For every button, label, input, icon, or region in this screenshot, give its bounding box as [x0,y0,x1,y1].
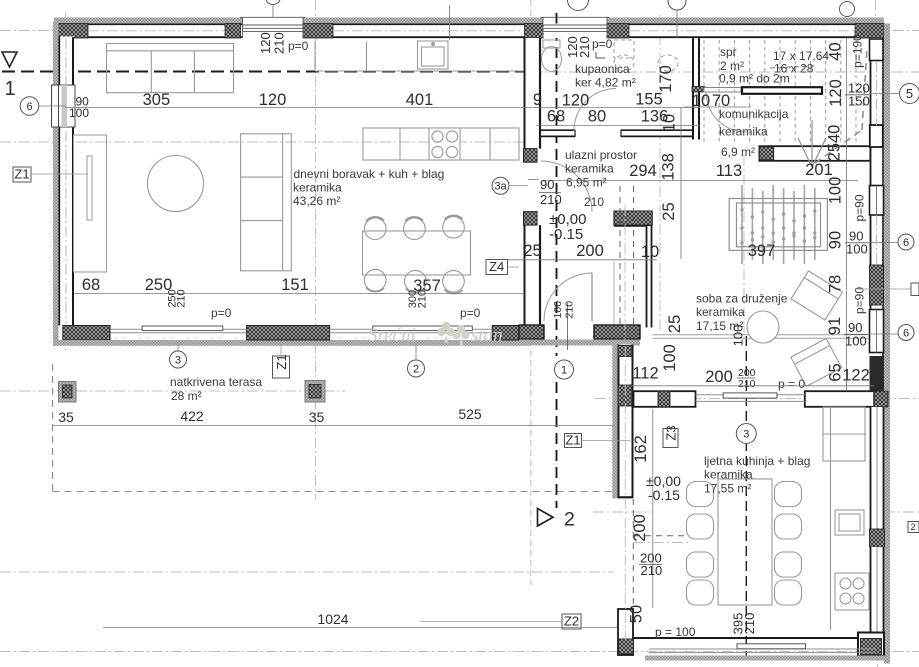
svg-text:3a: 3a [494,181,507,193]
svg-text:210: 210 [417,290,429,308]
svg-text:p=0: p=0 [592,37,613,51]
svg-text:43,26 m²: 43,26 m² [293,194,340,208]
svg-text:210: 210 [540,192,562,207]
overhead (dashed) wall projection lines [620,186,688,645]
svg-text:210: 210 [584,195,604,209]
section marker 2 bottom [538,509,554,527]
svg-text:Z4: Z4 [489,259,504,274]
svg-text:25: 25 [666,315,684,333]
circle 3 below wall [177,345,179,351]
svg-text:keramika: keramika [565,162,614,176]
svg-text:Z1: Z1 [274,354,289,369]
svg-text:keramika: keramika [293,181,342,195]
svg-text:422: 422 [180,408,204,424]
svg-text:Z1: Z1 [565,433,580,448]
family room bottom glass line [653,335,870,339]
stove [429,128,460,160]
Z3 rotated box [663,429,678,448]
svg-text:40: 40 [827,42,845,60]
sliding door S1 rails [110,329,246,333]
svg-text:201: 201 [805,161,833,179]
stairs direction arrow [798,120,826,167]
svg-text:68: 68 [547,108,565,126]
top wall piers (cross hatch) [54,24,884,39]
stairs left wall (x 692-700) [692,38,700,140]
svg-text:ker 4,82 m²: ker 4,82 m² [575,76,636,90]
right wall window 91 (y 310-345) [870,310,884,353]
sofa return (left section) [241,134,292,271]
Z1 rotated box (terrace) [273,356,290,378]
svg-text:soba za druženje: soba za druženje [696,292,788,306]
bathroom shower oval (dashed) [658,55,678,71]
svg-text:p=0: p=0 [460,306,481,320]
summer kitchen chairs right [775,482,802,606]
svg-text:525: 525 [458,406,482,422]
dining table [363,231,471,275]
summer kitchen sink [835,510,864,535]
dining chairs top row [364,215,464,239]
svg-text:100: 100 [69,106,89,120]
svg-text:1: 1 [5,78,16,100]
grid line x=531 dashed grey [530,0,532,585]
svg-text:p = 0: p = 0 [778,377,805,391]
svg-text:210: 210 [577,36,592,58]
top leader circles [266,0,281,5]
Z1 box left [13,167,31,182]
top exterior wall insulation strip [54,18,884,24]
svg-text:68: 68 [82,276,100,294]
kitchen sink [418,41,449,69]
summer kitchen chairs left [687,482,714,606]
bottom living-room wall piers [247,326,525,341]
svg-text:komunikacija: komunikacija [719,107,789,121]
terrace column 2 [305,381,325,403]
svg-text:120: 120 [259,91,287,109]
circle 2 below wall [415,345,417,360]
svg-text:100: 100 [661,344,679,372]
svg-text:6,95 m²: 6,95 m² [566,176,607,190]
svg-text:25: 25 [523,242,541,260]
svg-text:200: 200 [576,242,604,260]
window W1 in top wall (120/210) [240,17,305,38]
svg-text:120: 120 [827,79,845,107]
svg-text:28 m²: 28 m² [171,389,202,403]
svg-text:ulazni prostor: ulazni prostor [565,148,637,162]
svg-text:210: 210 [641,563,663,578]
svg-text:122: 122 [842,367,870,385]
section line 2 (vertical, summer kitchen axis) [745,336,747,660]
svg-text:150: 150 [848,94,870,109]
svg-text:397: 397 [748,242,776,260]
family room armchair 2 (tilted) [791,338,842,386]
door D70 leaf (open, horizontal) [704,88,741,93]
svg-text:6,9 m²: 6,9 m² [721,145,755,159]
summer kitchen right wall band w/ window (y 407-529) [870,407,885,529]
svg-text:90: 90 [540,177,554,192]
section line 1 (horizontal, left) [2,70,524,72]
bathroom sink (dashed) [614,40,634,71]
stairs dashed up-line [815,48,867,163]
Z4 box [486,260,508,275]
summer kitchen counter edge [830,407,832,630]
wall between stairs and family room (y 146-161) [759,146,884,161]
left circle 6 (window) [20,97,39,116]
living room right wall (x 523.5-541) [524,38,542,329]
svg-text:210: 210 [742,613,757,635]
svg-text:stan: stan [471,325,503,346]
svg-text:112: 112 [632,365,658,383]
dim line row top (305/120/401) [65,107,531,109]
svg-text:100: 100 [552,301,564,319]
hall stub wall with niche (hatch) y 211-225 [614,211,652,226]
svg-text:2: 2 [910,522,915,532]
svg-text:keramika: keramika [704,468,753,482]
west wall of summer kitchen (x 617.5-633.5, y 344.5-498.5) [612,345,633,499]
svg-text:151: 151 [281,276,309,294]
svg-text:294: 294 [629,162,657,180]
summer kitchen stove [835,573,869,610]
svg-text:1: 1 [561,365,567,377]
right wall window p=90 (y 202-225) [870,186,884,216]
svg-text:3: 3 [175,355,181,367]
svg-text:210: 210 [175,289,187,307]
svg-text:100: 100 [827,177,845,205]
svg-text:Srećni: Srećni [368,325,416,346]
svg-text:-0.15: -0.15 [648,487,680,503]
svg-text:100: 100 [731,325,746,347]
door D80 swing (bathroom) [574,89,616,131]
svg-text:90: 90 [827,231,845,249]
svg-text:-0.15: -0.15 [549,226,583,243]
dining chairs bottom row [364,269,464,293]
svg-text:35: 35 [309,409,325,425]
svg-text:50: 50 [628,605,646,623]
main door D100 swing [544,273,592,321]
family room round chair [747,311,779,343]
svg-text:dnevni boravak + kuh + blag: dnevni boravak + kuh + blag [294,167,445,181]
bathroom toilet [542,40,562,72]
svg-text:keramika: keramika [719,125,768,139]
svg-text:35: 35 [58,409,74,425]
bottom-left corner pier [63,326,110,341]
dim line 162 (x 653.5) [0,0,653,608]
svg-text:25: 25 [660,202,678,220]
right wall: band from top corner down [870,38,885,356]
main door D100 leaf [591,273,593,321]
svg-text:2: 2 [564,509,575,531]
door D70 stub hatch [692,87,705,93]
svg-text:ljetna kuhinja + blag: ljetna kuhinja + blag [704,454,810,468]
svg-text:138: 138 [660,153,678,181]
wall axis dash-dot x625 [624,205,626,497]
svg-text:17,55 m²: 17,55 m² [704,482,751,496]
right wall window p=190 (y 39-60.5) [870,39,884,61]
svg-text:9: 9 [533,91,542,109]
summer kitchen fridge [823,407,865,461]
bathroom bottom wall [541,130,700,138]
right wall niche box (y 125-147) [870,125,883,147]
svg-text:401: 401 [406,91,434,109]
kitchen counter top [315,42,524,72]
svg-text:210: 210 [564,301,576,319]
svg-text:120: 120 [562,92,590,110]
summer kitchen top wall [634,391,889,407]
terrace column 1 [59,382,77,403]
sliding door S1 panel [142,326,223,331]
svg-text:p=190: p=190 [851,34,865,68]
svg-text:113: 113 [716,162,742,180]
svg-text:6: 6 [903,327,909,339]
svg-text:210: 210 [272,32,287,54]
svg-text:80: 80 [588,108,606,126]
svg-text:91: 91 [826,317,844,335]
Z1 box (hall bottom) [565,434,582,448]
svg-text:100: 100 [845,334,867,349]
summer kitchen right wall upper corner (solid) [870,356,885,392]
terrace boundary dashed [53,364,616,492]
svg-text:p=90: p=90 [853,287,867,314]
svg-text:10: 10 [661,114,679,132]
bottom living-room wall: insulation strip [53,340,530,346]
summer kitchen top sliding door [696,395,805,402]
summer kitchen bottom-right corner (solid) [858,633,884,657]
sofa [107,44,234,93]
svg-text:78: 78 [827,275,845,293]
left wall band [59,37,75,326]
svg-text:kupaonica: kupaonica [575,62,630,76]
family room left wall (x 645.5-652.5, y 226-327.5) [646,226,653,328]
Z2 box [562,614,581,629]
stairs treads [704,40,856,145]
window W6 in left wall (90/100) [52,85,76,127]
circle 3 summer kitchen [736,424,756,444]
svg-text:2: 2 [413,364,419,376]
wall centerline overlays (dash-dot) [66,31,877,324]
circle 1 on section line [555,360,574,379]
right edge label fragment [908,522,919,533]
family room armchair 1 (tilted) [791,271,842,320]
svg-text:Z1: Z1 [14,167,29,182]
summer kitchen bottom-left jamb [618,609,634,655]
sliding door S2 rails [330,329,493,333]
kitchen island [363,128,519,160]
svg-text:p=0: p=0 [288,39,309,53]
svg-text:Z2: Z2 [564,614,579,629]
pergola slats [742,185,815,264]
summer kitchen table [718,479,772,605]
svg-text:p=0: p=0 [211,306,232,320]
svg-text:162: 162 [632,435,650,463]
svg-text:keramika: keramika [696,305,745,319]
svg-text:170: 170 [657,65,675,93]
svg-text:1024: 1024 [317,611,348,627]
hall bottom wall with main entrance [519,325,640,346]
svg-text:200: 200 [631,514,649,542]
sliding door S2 panel [373,326,473,331]
summer kitchen right wall band (y 547-633) [870,547,885,633]
right wall pier (y 265-305) [870,265,884,305]
section line 1 (vertical) [556,13,558,356]
circle 3a [492,177,509,194]
svg-text:200: 200 [705,368,733,386]
pergola slat beads [740,208,816,244]
svg-text:16 x 28: 16 x 28 [774,62,814,76]
summer kitchen bottom wall (sliding glass) [633,638,890,661]
pergola frame [729,199,827,251]
svg-text:6: 6 [26,101,32,113]
top wall band [54,24,884,39]
svg-text:spr: spr [720,45,737,59]
door D90 swing (living to hall) [541,161,592,212]
right exterior wall insulation strip [884,24,890,664]
window W2 in top wall (120/210) [541,17,610,38]
svg-text:Z3: Z3 [663,425,678,440]
svg-text:natkrivena terasa: natkrivena terasa [170,375,262,389]
summer kitchen right wall pier (y 529-547) [870,529,885,547]
svg-text:3: 3 [743,429,749,441]
svg-text:305: 305 [143,91,171,109]
door D70 swing [706,92,746,132]
svg-text:5: 5 [906,86,913,101]
round table [148,156,204,212]
section marker 1 left [2,52,17,67]
svg-text:p=90: p=90 [853,194,867,221]
wall axis dash-dot overlay x625 [624,346,626,640]
16x28 strikethrough [770,66,814,68]
tv cabinet [74,135,107,272]
svg-text:2540: 2540 [826,125,844,162]
svg-text:10: 10 [641,243,659,261]
left exterior wall insulation strip [53,22,59,346]
stairs handrail bar [742,87,822,94]
svg-text:210: 210 [738,378,756,390]
svg-text:p = 100: p = 100 [655,625,696,639]
svg-text:6: 6 [903,237,909,249]
svg-text:100: 100 [846,242,868,257]
